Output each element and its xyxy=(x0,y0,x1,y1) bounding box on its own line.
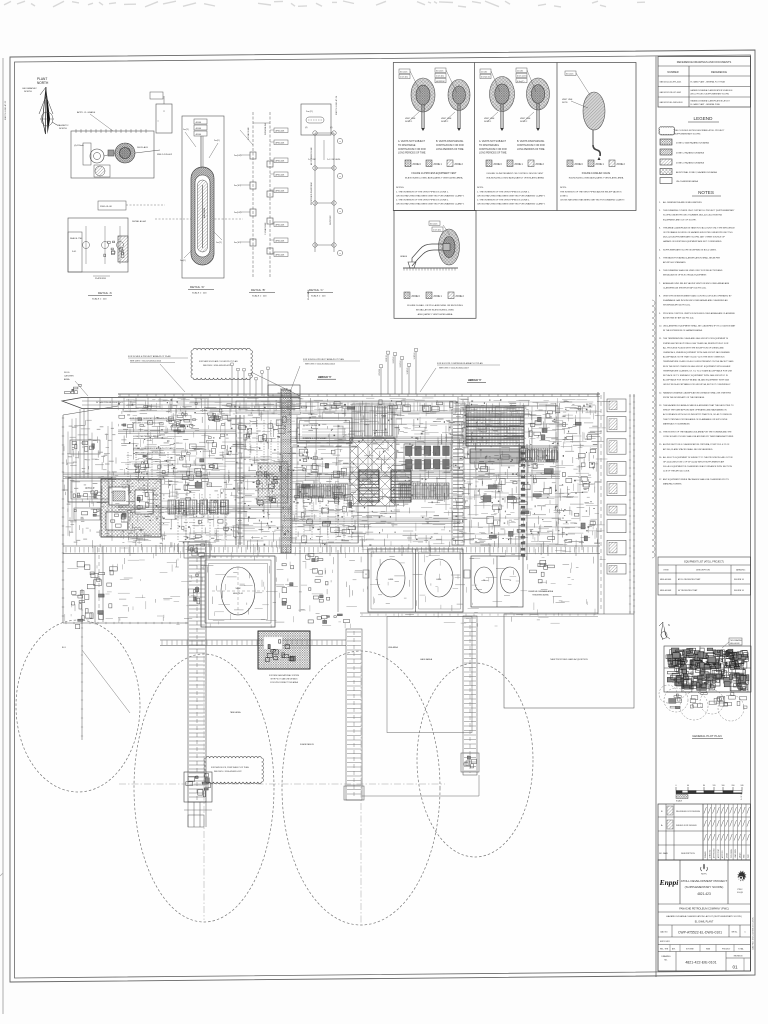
svg-text:3m(10'): 3m(10') xyxy=(234,185,241,187)
svg-text:ALL ELECTL EQUIPMENT IS SUBJEC: ALL ELECTL EQUIPMENT IS SUBJECT TO THE P… xyxy=(663,456,733,459)
boundary below tanks xyxy=(360,612,598,614)
svg-text:ZONE 2: ZONE 2 xyxy=(456,296,465,298)
cooler ext box xyxy=(524,406,558,446)
svg-text:2m(6.6'): 2m(6.6') xyxy=(234,212,242,214)
svg-text:ITEM: ITEM xyxy=(664,570,669,572)
svg-text:MATCH LINE AT-22: MATCH LINE AT-22 xyxy=(4,100,7,120)
figure boxes frame xyxy=(393,63,636,211)
svg-text:PROPOSED PLATFORM: PROPOSED PLATFORM xyxy=(310,182,313,205)
svg-text:VENT LINE: VENT LINE xyxy=(520,118,531,120)
svg-text:APPX. CL GRADE: APPX. CL GRADE xyxy=(77,111,96,114)
C1 bottom flare structure xyxy=(184,772,212,802)
left fence xyxy=(62,415,64,623)
tank pair T2 T3 xyxy=(368,549,463,612)
svg-text:NORTH: NORTH xyxy=(37,81,49,85)
svg-text:IN A NON-ENCLOSED ADEQUATELY V: IN A NON-ENCLOSED ADEQUATELY VENTILATED … xyxy=(569,177,624,180)
svg-text:VENTS FROM INSTRUMENTS AND CON: VENTS FROM INSTRUMENTS AND CONTROL DEVIC… xyxy=(663,295,732,298)
svg-text:(SUPPLEMENTARY SCOPE): (SUPPLEMENTARY SCOPE) xyxy=(685,885,724,889)
svg-text:THE CLOUDED NOTES DESCRIBED AT: THE CLOUDED NOTES DESCRIBED ATOLL PROJEC… xyxy=(674,129,725,132)
svg-text:2. THE INTERIOR OF THE VENT PI: 2. THE INTERIOR OF THE VENT PIPING IS ZO… xyxy=(396,200,449,202)
svg-text:LONG PERIODS OF TIME.: LONG PERIODS OF TIME. xyxy=(436,149,464,151)
svg-text:APXD-40S: APXD-40S xyxy=(276,141,285,144)
svg-text:ZONE 0: ZONE 0 xyxy=(412,296,421,298)
svg-text:IN THE EXTENSION OF HAZARDS AR: IN THE EXTENSION OF HAZARDS AREA. xyxy=(663,329,703,332)
svg-text:ACCEPTABLE FOR GROUP IIB AND I: ACCEPTABLE FOR GROUP IIB AND IIA. AND EQ… xyxy=(663,379,730,382)
vertical dashed columns x250-282 xyxy=(249,420,251,462)
svg-text:0800-TK-01: 0800-TK-01 xyxy=(233,593,243,595)
svg-text:THE INTERIOR OF THE VENT PIPIN: THE INTERIOR OF THE VENT PIPING ABOVE RE… xyxy=(560,191,622,194)
revision cloud note slvcs xyxy=(191,348,252,379)
svg-text:W.H.C.P.: W.H.C.P. xyxy=(85,487,95,490)
figure 16 box: pig launcher xyxy=(394,211,476,319)
svg-text:1m(3'): 1m(3') xyxy=(216,242,222,244)
svg-text:UNCLASSIFIED EQUIPMENT SHALL B: UNCLASSIFIED EQUIPMENT SHALL BE CLASSIFI… xyxy=(663,325,736,328)
svg-text:NUMBER: NUMBER xyxy=(667,70,678,74)
svg-text:DSGN: DSGN xyxy=(727,852,729,858)
detail B drawing xyxy=(234,112,288,298)
svg-text:ZONE 2: ZONE 2 xyxy=(455,164,464,166)
svg-text:VENT-03: VENT-03 xyxy=(393,357,395,364)
svg-text:ACCEPTABLE. NOTE THAT T3 (200: ACCEPTABLE. NOTE THAT T3 (200 °C) IS THE… xyxy=(663,356,725,359)
center column group xyxy=(247,434,250,438)
svg-text:2m(6.6'): 2m(6.6') xyxy=(234,155,242,157)
svg-text:ZONE 1: ZONE 1 xyxy=(596,164,605,166)
svg-text:APPR CO: APPR CO xyxy=(721,850,724,858)
pump row below tanks xyxy=(323,620,327,623)
pump station dark block xyxy=(258,631,310,669)
svg-text:NOTES: NOTES xyxy=(698,190,714,195)
svg-text:0: 0 xyxy=(676,785,677,787)
svg-text:40500: 40500 xyxy=(196,134,202,136)
svg-text:AT/CURRENT LINE: AT/CURRENT LINE xyxy=(310,147,313,165)
lake area rect xyxy=(387,617,472,733)
uniform fine speckle pass4 xyxy=(120,398,606,555)
svg-text:FIGURE 16: FIGURE 16 xyxy=(734,579,744,581)
reference drawings table xyxy=(658,57,751,108)
svg-text:'TENDERED AREA': 'TENDERED AREA' xyxy=(532,594,549,597)
svg-text:17.: 17. xyxy=(659,479,662,481)
notes cloud edge xyxy=(652,300,655,558)
svg-text:AS PER SECTION 6 CLASSIFICATIO: AS PER SECTION 6 CLASSIFICATION CRITERIA… xyxy=(663,443,730,446)
svg-text:APXD-40S: APXD-40S xyxy=(276,189,285,192)
svg-text:0.3m(1'): 0.3m(1') xyxy=(517,81,525,83)
svg-text:SUPPORT: SUPPORT xyxy=(330,215,332,225)
south road band xyxy=(63,545,600,547)
svg-text:0800-HV-008: 0800-HV-008 xyxy=(660,590,671,592)
svg-text:PROJ ENG: PROJ ENG xyxy=(731,849,733,858)
WHCP box xyxy=(68,478,112,502)
svg-text:EL GAML PLANT - GENERAL PLOT P: EL GAML PLANT - GENERAL PLOT PLAN xyxy=(691,80,726,83)
svg-text:PROCESS CONTROL VENTS IN NON E: PROCESS CONTROL VENTS IN NON ENCLOSED AR… xyxy=(663,312,736,315)
tank pair T4 T5 xyxy=(471,556,523,607)
svg-text:VENT-05: VENT-05 xyxy=(407,367,409,374)
svg-text:2m(6'): 2m(6') xyxy=(180,260,186,262)
svg-text:FOR NEW SLVCS, PUMP SHED PLOT: FOR NEW SLVCS, PUMP SHED PLOT PLAN xyxy=(211,766,249,769)
small cluster right of T1 xyxy=(290,583,293,586)
svg-text:ANY EQUIPMENT INSIDE PACKAGES: ANY EQUIPMENT INSIDE PACKAGES SHALL BE C… xyxy=(663,478,729,481)
svg-text:FIGURE 15-INSTRUMENT OR CONTRO: FIGURE 15-INSTRUMENT OR CONTROL DEVICE V… xyxy=(487,173,544,175)
ellipse centerlines xyxy=(119,783,445,785)
svg-text:12.: 12. xyxy=(659,392,662,394)
svg-text:HORIZ/M: HORIZ/M xyxy=(436,81,445,83)
svg-text:NOTE: NOTE xyxy=(562,102,568,104)
revision cloud 2 xyxy=(204,757,263,784)
svg-text:CHEMICAL STORAGE AREA: CHEMICAL STORAGE AREA xyxy=(528,590,554,593)
vertical pipe bundle x236 xyxy=(235,415,237,545)
svg-text:14.: 14. xyxy=(659,432,662,434)
svg-text:NO. DATE: NO. DATE xyxy=(659,852,669,855)
svg-text:(4): (4) xyxy=(330,127,333,129)
svg-text:FOR SCHDS & PROJECT AREA PLOT: FOR SCHDS & PROJECT AREA PLOT PLAN xyxy=(128,355,171,358)
svg-text:Enppi: Enppi xyxy=(659,878,680,887)
svg-text:GENERAL PLOT PLAN: GENERAL PLOT PLAN xyxy=(692,734,721,738)
dashed radius ellipse E2 xyxy=(134,654,274,922)
svg-text:3m (10'): 3m (10') xyxy=(566,73,574,75)
riser group 2 xyxy=(231,366,233,397)
svg-text:NEW PROPOSED LAND ACQUISITION: NEW PROPOSED LAND ACQUISITION xyxy=(550,658,588,661)
stepped boundary bottom xyxy=(362,795,479,797)
dark twin vessels xyxy=(359,470,379,502)
svg-text:DECK-A03: DECK-A03 xyxy=(137,146,148,149)
svg-text:10.8 OF THE API 500 CODE.: 10.8 OF THE API 500 CODE. xyxy=(663,470,690,473)
svg-text:▤ MCC BLDG: ▤ MCC BLDG xyxy=(303,424,318,427)
svg-text:VENT-06: VENT-06 xyxy=(414,352,416,359)
svg-text:VENT LINE: VENT LINE xyxy=(484,118,495,120)
dark grid block x404 xyxy=(404,444,451,471)
svg-text:(4): (4) xyxy=(305,127,308,129)
svg-text:CROSS HATCHING HAS BEEN OMITTE: CROSS HATCHING HAS BEEN OMITTED FOR DRAW… xyxy=(477,203,546,206)
svg-text:200: 200 xyxy=(732,785,735,787)
svg-text:SHOWN AS API 500 FIG (15).: SHOWN AS API 500 FIG (15). xyxy=(663,304,691,307)
svg-text:FLARE RADIUS: FLARE RADIUS xyxy=(300,743,315,746)
svg-text:ZONE 0: ZONE 0 xyxy=(494,164,503,166)
riser group above fence xyxy=(380,368,382,394)
svg-text:CHEMICALS, WHERE EQUIPMENT WIT: CHEMICALS, WHERE EQUIPMENT WITH GAS GROU… xyxy=(663,351,730,354)
svg-text:2m(6'): 2m(6') xyxy=(214,140,220,142)
svg-text:4821-423 (SUPPLEMENTARY SCOPE): 4821-423 (SUPPLEMENTARY SCOPE). ANY OTHE… xyxy=(663,236,726,239)
svg-text:NORTH: NORTH xyxy=(24,91,32,93)
svg-text:TEMPERATURE CLASS OF ALL FLUID: TEMPERATURE CLASS OF ALL FLUIDS PRESENT … xyxy=(663,360,734,363)
revision table xyxy=(658,804,751,860)
svg-text:STATED AS PER IEC/TORELLO AS T: STATED AS PER IEC/TORELLO AS T3 AND IIA,… xyxy=(663,342,729,345)
svg-text:REFERENCE DRAWINGS AND DOCUMEN: REFERENCE DRAWINGS AND DOCUMENTS xyxy=(677,60,732,64)
detail C drawing xyxy=(305,127,343,300)
svg-text:CWP-AT5522-EL-DWG-0101: CWP-AT5522-EL-DWG-0101 xyxy=(678,931,722,935)
svg-text:3m (10'): 3m (10') xyxy=(430,223,438,225)
left cluster lower xyxy=(107,583,112,586)
svg-text:CLASSIFIED AS SHOWN BY API 500: CLASSIFIED AS SHOWN BY API 500 FIG (15). xyxy=(663,286,707,289)
mini north arrow xyxy=(659,622,670,640)
svg-text:2. THE INTERIOR OF THE VENT PI: 2. THE INTERIOR OF THE VENT PIPING IS ZO… xyxy=(477,200,530,202)
svg-text:DETAIL A1-A2: DETAIL A1-A2 xyxy=(132,220,147,223)
svg-text:QA/QC: QA/QC xyxy=(738,852,741,858)
svg-text:NOTE 1: NOTE 1 xyxy=(484,121,492,123)
svg-text:CONTINUOUSLY OR FOR: CONTINUOUSLY OR FOR xyxy=(436,145,464,147)
svg-text:ZONE 2: ZONE 2 xyxy=(617,164,626,166)
right buildings column xyxy=(607,399,626,412)
svg-text:SCALE 1 : 200: SCALE 1 : 200 xyxy=(311,295,326,298)
svg-text:APXD-40S: APXD-40S xyxy=(276,239,285,242)
svg-text:TANK AREA: TANK AREA xyxy=(230,711,241,714)
right column divider xyxy=(655,57,657,978)
svg-text:MATCH LINE AT-24: MATCH LINE AT-24 xyxy=(335,95,338,115)
svg-text:SCALE 1 : 200: SCALE 1 : 200 xyxy=(192,292,207,295)
pipe bundle rows xyxy=(290,436,520,438)
vertical pipes across full band xyxy=(147,421,149,502)
svg-text:1m (3'): 1m (3') xyxy=(517,70,523,72)
svg-text:LONG PERIODS OF TIME.: LONG PERIODS OF TIME. xyxy=(398,153,426,155)
svg-text:SEE DWG # 5612-EL0606-10007: SEE DWG # 5612-EL0606-10007 xyxy=(439,368,470,370)
svg-text:1m (3'): 1m (3') xyxy=(481,71,487,73)
svg-text:IN A NON-ENCLOSED ADEQUATELY V: IN A NON-ENCLOSED ADEQUATELY VENTILATED … xyxy=(486,177,544,180)
flare KO crosshatch block xyxy=(101,479,161,537)
svg-text:SYSTEM: SYSTEM xyxy=(686,949,694,951)
svg-text:2×J 2.5M LEVEL: 2×J 2.5M LEVEL xyxy=(327,158,341,161)
svg-text:A. VENTS NOT SUBJECT: A. VENTS NOT SUBJECT xyxy=(479,140,507,143)
detail A drawing xyxy=(68,111,243,301)
MCC building xyxy=(297,418,352,443)
svg-text:SEE DWG # 5612-EL0606-10004: SEE DWG # 5612-EL0606-10004 xyxy=(130,361,162,363)
nopc flame logo xyxy=(701,864,708,871)
svg-text:CONTINUOUSLY OR FOR: CONTINUOUSLY OR FOR xyxy=(398,149,426,151)
svg-text:EQUIPMENT ARE OUT OF SCOPE.: EQUIPMENT ARE OUT OF SCOPE. xyxy=(663,218,697,221)
svg-text:CODE 301 AIR COOLED SHALL BE A: CODE 301 AIR COOLED SHALL BE ADVISED BY … xyxy=(663,435,734,438)
svg-text:TO DISCHARGING: TO DISCHARGING xyxy=(479,144,499,147)
top strip texture xyxy=(124,398,601,415)
svg-text:4821-422-EIE-0101: 4821-422-EIE-0101 xyxy=(685,961,716,965)
svg-text:SEE DWG # 4246-443-EFD-0121: SEE DWG # 4246-443-EFD-0121 xyxy=(203,365,231,367)
corridor C2 xyxy=(346,629,362,800)
svg-text:VENT LINE: VENT LINE xyxy=(562,99,573,101)
svg-text:ATOLL DEVELOPMENT PROJECT: ATOLL DEVELOPMENT PROJECT xyxy=(681,879,728,883)
svg-text:CONTINUOUSLY OR FOR: CONTINUOUSLY OR FOR xyxy=(517,145,545,147)
flare corridor C1 xyxy=(184,542,212,827)
svg-text:NOPC: NOPC xyxy=(701,874,707,876)
svg-text:ZONE 0: ZONE 0 xyxy=(575,164,584,166)
svg-text:TO DISCHARGE: TO DISCHARGE xyxy=(398,144,416,147)
svg-text:SCALE: SCALE xyxy=(676,800,683,803)
riser label box xyxy=(156,104,172,133)
svg-text:THIS DRAWING COVERS ONLY CWP A: THIS DRAWING COVERS ONLY CWP ATOLL PROJE… xyxy=(663,209,735,212)
svg-text:APXD-40S: APXD-40S xyxy=(276,159,285,162)
svg-text:FIGURE 14-PROCESS EQUIPMENT VE: FIGURE 14-PROCESS EQUIPMENT VENT xyxy=(412,173,457,175)
svg-text:APXD-40S: APXD-40S xyxy=(276,129,285,132)
svg-text:HAZARDOUS AREA CLASSIFICATION: HAZARDOUS AREA CLASSIFICATION SCHEDULE xyxy=(691,89,734,92)
vertical road center xyxy=(457,397,459,545)
svg-text:REL. THE: REL. THE xyxy=(660,949,669,951)
texture tanks band xyxy=(72,556,593,628)
left column extra verticals xyxy=(67,432,69,536)
svg-text:NOTES:: NOTES: xyxy=(396,187,405,189)
svg-text:FIGURE 16: FIGURE 16 xyxy=(734,590,744,592)
center-top strip boxes xyxy=(236,401,456,413)
svg-text:HAZARDOUS AREA CLASSIFICATION: HAZARDOUS AREA CLASSIFICATION DISTANCE S… xyxy=(663,391,731,394)
svg-text:(SUPPLEMENTARY SCOPE): (SUPPLEMENTARY SCOPE) xyxy=(674,132,701,135)
svg-text:(4)-220mA: (4)-220mA xyxy=(74,144,84,147)
svg-text:OF PROBABLE SOURCE OF HAZARD E: OF PROBABLE SOURCE OF HAZARD EXECUTED UN… xyxy=(663,231,733,234)
svg-text:SH No.: SH No. xyxy=(731,932,738,934)
svg-text:VENT-04: VENT-04 xyxy=(400,361,402,368)
svg-text:0.5m(1.6'): 0.5m(1.6') xyxy=(481,77,490,79)
svg-text:NORTH: NORTH xyxy=(59,128,67,130)
svg-text:SEALGL TML: SEALGL TML xyxy=(70,237,83,240)
svg-text:LONG PERIODS OF TIME.: LONG PERIODS OF TIME. xyxy=(479,153,507,155)
dashed radius ellipse E4 xyxy=(417,663,533,857)
svg-text:AREAS AROUND RELIEF VALVES VEN: AREAS AROUND RELIEF VALVES VENTS IN ENCL… xyxy=(663,282,730,285)
svg-text:ACCORDANCE WITH GOOD INDUSTRY: ACCORDANCE WITH GOOD INDUSTRY PRACTICE, … xyxy=(663,413,733,416)
svg-text:ATOLL PROJECT (SUPPLEMENTARY S: ATOLL PROJECT (SUPPLEMENTARY SCOPE) xyxy=(691,93,730,96)
svg-text:NOTE:: NOTE: xyxy=(560,187,567,189)
svg-text:DWG-01-0K: DWG-01-0K xyxy=(100,206,112,208)
svg-text:MAGNETIC: MAGNETIC xyxy=(57,124,69,127)
svg-text:ZONE 1: ZONE 1 xyxy=(434,164,443,166)
slvcs pump column xyxy=(319,571,323,574)
proposed land rect xyxy=(504,614,634,708)
pwc flower logo xyxy=(737,870,746,881)
svg-text:1.5m (5'): 1.5m (5') xyxy=(436,76,444,78)
svg-text:0800-HV-008: 0800-HV-008 xyxy=(730,643,740,645)
svg-text:APL: APL xyxy=(672,948,675,951)
svg-text:EL GAML PLANT - GENERAL PLAN: EL GAML PLANT - GENERAL PLAN xyxy=(691,103,721,106)
svg-text:VENT LINE: VENT LINE xyxy=(441,118,452,120)
svg-text:ISSUED FOR DESIGN: ISSUED FOR DESIGN xyxy=(676,825,697,827)
center dark manifold xyxy=(258,463,288,503)
top fence xyxy=(118,393,600,395)
svg-text:ZONE 2: ZONE 2 xyxy=(536,164,545,166)
svg-text:ZONE 2, HAZARDOUS AREA: ZONE 2, HAZARDOUS AREA xyxy=(676,161,704,164)
svg-text:PROJECT: PROJECT xyxy=(722,949,731,951)
svg-text:1. THE INTERIOR OF THE VENT PI: 1. THE INTERIOR OF THE VENT PIPING IS ZO… xyxy=(477,192,530,194)
svg-text:3m (10'): 3m (10') xyxy=(436,70,444,72)
svg-text:CONTINUOUSLY OR FOR: CONTINUOUSLY OR FOR xyxy=(479,149,507,151)
key plan leader box xyxy=(729,638,742,645)
svg-text:EG-QB: EG-QB xyxy=(737,892,743,894)
more speckle everywhere pass3 xyxy=(121,398,611,555)
dashed radius ellipse E3 xyxy=(282,651,440,925)
svg-text:16.: 16. xyxy=(659,457,662,459)
svg-text:1. THE INTERIOR OF THE VENT PI: 1. THE INTERIOR OF THE VENT PIPING IS ZO… xyxy=(396,192,449,194)
svg-text:NOTE 2: NOTE 2 xyxy=(520,121,528,123)
svg-text:500. ALL EQUIPMENT IS CLASSIFI: 500. ALL EQUIPMENT IS CLASSIFIED IN ACCO… xyxy=(663,465,732,468)
svg-text:0 4 8 12: 0 4 8 12 xyxy=(741,794,743,801)
svg-text:2m (6'): 2m (6') xyxy=(306,111,313,113)
svg-text:FROM THE BOUNDARY OF THE PACKA: FROM THE BOUNDARY OF THE PACKAGE. xyxy=(663,396,705,399)
svg-text:240: 240 xyxy=(741,785,744,787)
whcp feed lines xyxy=(79,409,81,478)
svg-text:0800-HV-006: 0800-HV-006 xyxy=(660,579,671,581)
svg-text:APPROVED: APPROVED xyxy=(713,848,716,858)
svg-text:SUPPLEMENTARY SCOPE IS DEFINED: SUPPLEMENTARY SCOPE IS DEFINED IN BOLD L… xyxy=(663,248,717,251)
svg-text:SLUG: SLUG xyxy=(64,372,70,374)
svg-text:B. VENTS DISCHARGING: B. VENTS DISCHARGING xyxy=(517,140,545,143)
svg-text:SUB. STA. &. SWITCHGEAR: SUB. STA. &. SWITCHGEAR xyxy=(303,437,327,440)
svg-text:SCOPE) UNDER PROJECT NUMBER 48: SCOPE) UNDER PROJECT NUMBER 4821-423. AL… xyxy=(663,214,723,217)
svg-text:ZONE 0.: ZONE 0. xyxy=(560,196,569,198)
right edge road darker xyxy=(633,394,635,614)
svg-text:N: N xyxy=(668,624,670,627)
texture speckle left band xyxy=(64,420,124,548)
svg-text:THE AREA CLASSIFICATION TAKE I: THE AREA CLASSIFICATION TAKE INTO ACCOUN… xyxy=(663,226,735,229)
svg-text:2×J 2.5M: 2×J 2.5M xyxy=(308,158,316,161)
svg-text:FIGURE 16-BALL OR PIG LAUNCHIN: FIGURE 16-BALL OR PIG LAUNCHING OR RECEI… xyxy=(407,304,463,307)
svg-text:SCALE 1 : 200: SCALE 1 : 200 xyxy=(92,298,107,301)
svg-text:DETAIL ‘B’: DETAIL ‘B’ xyxy=(251,288,266,292)
svg-text:FOR NEW SLVCS AIR COOLER PLOT: FOR NEW SLVCS AIR COOLER PLOT PLAN xyxy=(199,360,238,363)
figure 14 box: process equipment vent xyxy=(396,68,470,206)
svg-text:GAP-45522-18-LDT-0002: GAP-45522-18-LDT-0002 xyxy=(660,91,682,94)
svg-text:15.: 15. xyxy=(659,444,662,446)
svg-text:DESCRIPTION: DESCRIPTION xyxy=(681,853,695,855)
svg-text:01: 01 xyxy=(732,965,738,970)
scan noise strip top xyxy=(4,1,645,7)
svg-text:0.5m (1.6'): 0.5m (1.6') xyxy=(517,76,527,78)
svg-text:NOTE:: NOTE: xyxy=(477,187,484,189)
svg-text:REFERENCE: REFERENCE xyxy=(711,70,727,74)
svg-text:MANUFACTURERS.: MANUFACTURERS. xyxy=(663,482,682,485)
svg-text:DRAWN: DRAWN xyxy=(704,851,707,858)
svg-text:LINE AREA: LINE AREA xyxy=(388,646,399,649)
striped cooler unit xyxy=(466,406,524,446)
horizontal pipes across full band xyxy=(190,401,593,403)
svg-text:4821-5XX: 4821-5XX xyxy=(660,941,670,943)
svg-text:MATERIALS TO A MINIMUM.: MATERIALS TO A MINIMUM. xyxy=(663,422,690,425)
corridor C3 xyxy=(463,616,477,775)
svg-text:SEE DWG # 4246-443-EFD-0122: SEE DWG # 4246-443-EFD-0122 xyxy=(214,771,242,773)
svg-text:THIS DRAWING SHALL BE USED ONL: THIS DRAWING SHALL BE USED ONLY FOR SELE… xyxy=(663,269,723,272)
svg-text:WHICH THEY ARE APPLIED ARE OPE: WHICH THEY ARE APPLIED ARE OPERATED AND … xyxy=(663,409,727,412)
left mid boxes xyxy=(70,440,100,454)
svg-text:EL GAML PLANT: EL GAML PLANT xyxy=(695,921,714,924)
svg-text:VENT-01: VENT-01 xyxy=(379,369,381,376)
svg-text:CAD NO.: CAD NO. xyxy=(660,931,668,934)
svg-text:LEAD ENG: LEAD ENG xyxy=(734,849,737,858)
svg-text:AIRCHASE: AIRCHASE xyxy=(203,207,206,218)
svg-text:SEE DWG # 5612-EL0606-10004: SEE DWG # 5612-EL0606-10004 xyxy=(305,364,336,366)
general plot plan mini drawing xyxy=(659,646,751,721)
svg-text:ALL DIMENSIONS ARE IN MILLIMET: ALL DIMENSIONS ARE IN MILLIMETERS. xyxy=(663,201,703,204)
svg-text:ADEQUATELY VENTILATED AREA: ADEQUATELY VENTILATED AREA xyxy=(418,313,453,316)
svg-text:IIB IS THE MOST ONEROUS GAS GR: IIB IS THE MOST ONEROUS GAS GROUP. EQUIP… xyxy=(663,365,731,368)
svg-text:FOR BOOSTR COMPRESSOR AREA PLO: FOR BOOSTR COMPRESSOR AREA PLOT PLAN xyxy=(437,362,483,365)
svg-text:LONG PERIODS OF TIME.: LONG PERIODS OF TIME. xyxy=(517,149,545,151)
svg-text:A. VENTS NOT SUBJECT: A. VENTS NOT SUBJECT xyxy=(398,140,426,143)
svg-text:HAZARD OF EXISTING EQUIPMENT A: HAZARD OF EXISTING EQUIPMENT ARE NOT CON… xyxy=(663,240,722,243)
misc small text speckle xyxy=(121,400,600,544)
svg-text:IN PLACE OF T3. SIMILARLY, EQU: IN PLACE OF T3. SIMILARLY, EQUIPMENT WIT… xyxy=(663,374,728,377)
svg-text:10.: 10. xyxy=(659,326,662,328)
svg-text:1.5m (5'): 1.5m (5') xyxy=(400,77,408,79)
svg-text:APXD-40S: APXD-40S xyxy=(276,173,285,176)
left survey line xyxy=(81,589,83,740)
svg-text:3m (10'): 3m (10') xyxy=(400,71,408,73)
svg-text:WITH PILOT GAS LINE DETAILS: WITH PILOT GAS LINE DETAILS xyxy=(271,678,299,681)
plant north arrow xyxy=(22,77,69,134)
svg-text:WELD-245-002: WELD-245-002 xyxy=(157,154,173,156)
svg-text:API-RP-500 STANDARD.: API-RP-500 STANDARD. xyxy=(663,261,687,264)
svg-text:CATCHER: CATCHER xyxy=(64,375,74,378)
svg-text:40" RECEIVING TRAP: 40" RECEIVING TRAP xyxy=(678,589,698,592)
cooler unit 2 below xyxy=(470,449,520,463)
svg-text:CROSS HATCHING HAS BEEN OMITTE: CROSS HATCHING HAS BEEN OMITTED FOR DRAW… xyxy=(396,203,465,206)
svg-text:3m(10'): 3m(10') xyxy=(234,242,241,244)
svg-text:ADDITIONAL ZONE 2, HAZARDOUS A: ADDITIONAL ZONE 2, HAZARDOUS AREA xyxy=(676,171,717,174)
svg-text:13.: 13. xyxy=(659,405,662,407)
svg-text:○: ○ xyxy=(157,119,159,123)
svg-text:RE-ISSUED FOR DESIGN: RE-ISSUED FOR DESIGN xyxy=(676,811,700,813)
svg-text:DESCRIPTION: DESCRIPTION xyxy=(696,570,710,572)
chemical storage area xyxy=(548,565,555,568)
svg-text:ZONE 1: ZONE 1 xyxy=(515,164,524,166)
